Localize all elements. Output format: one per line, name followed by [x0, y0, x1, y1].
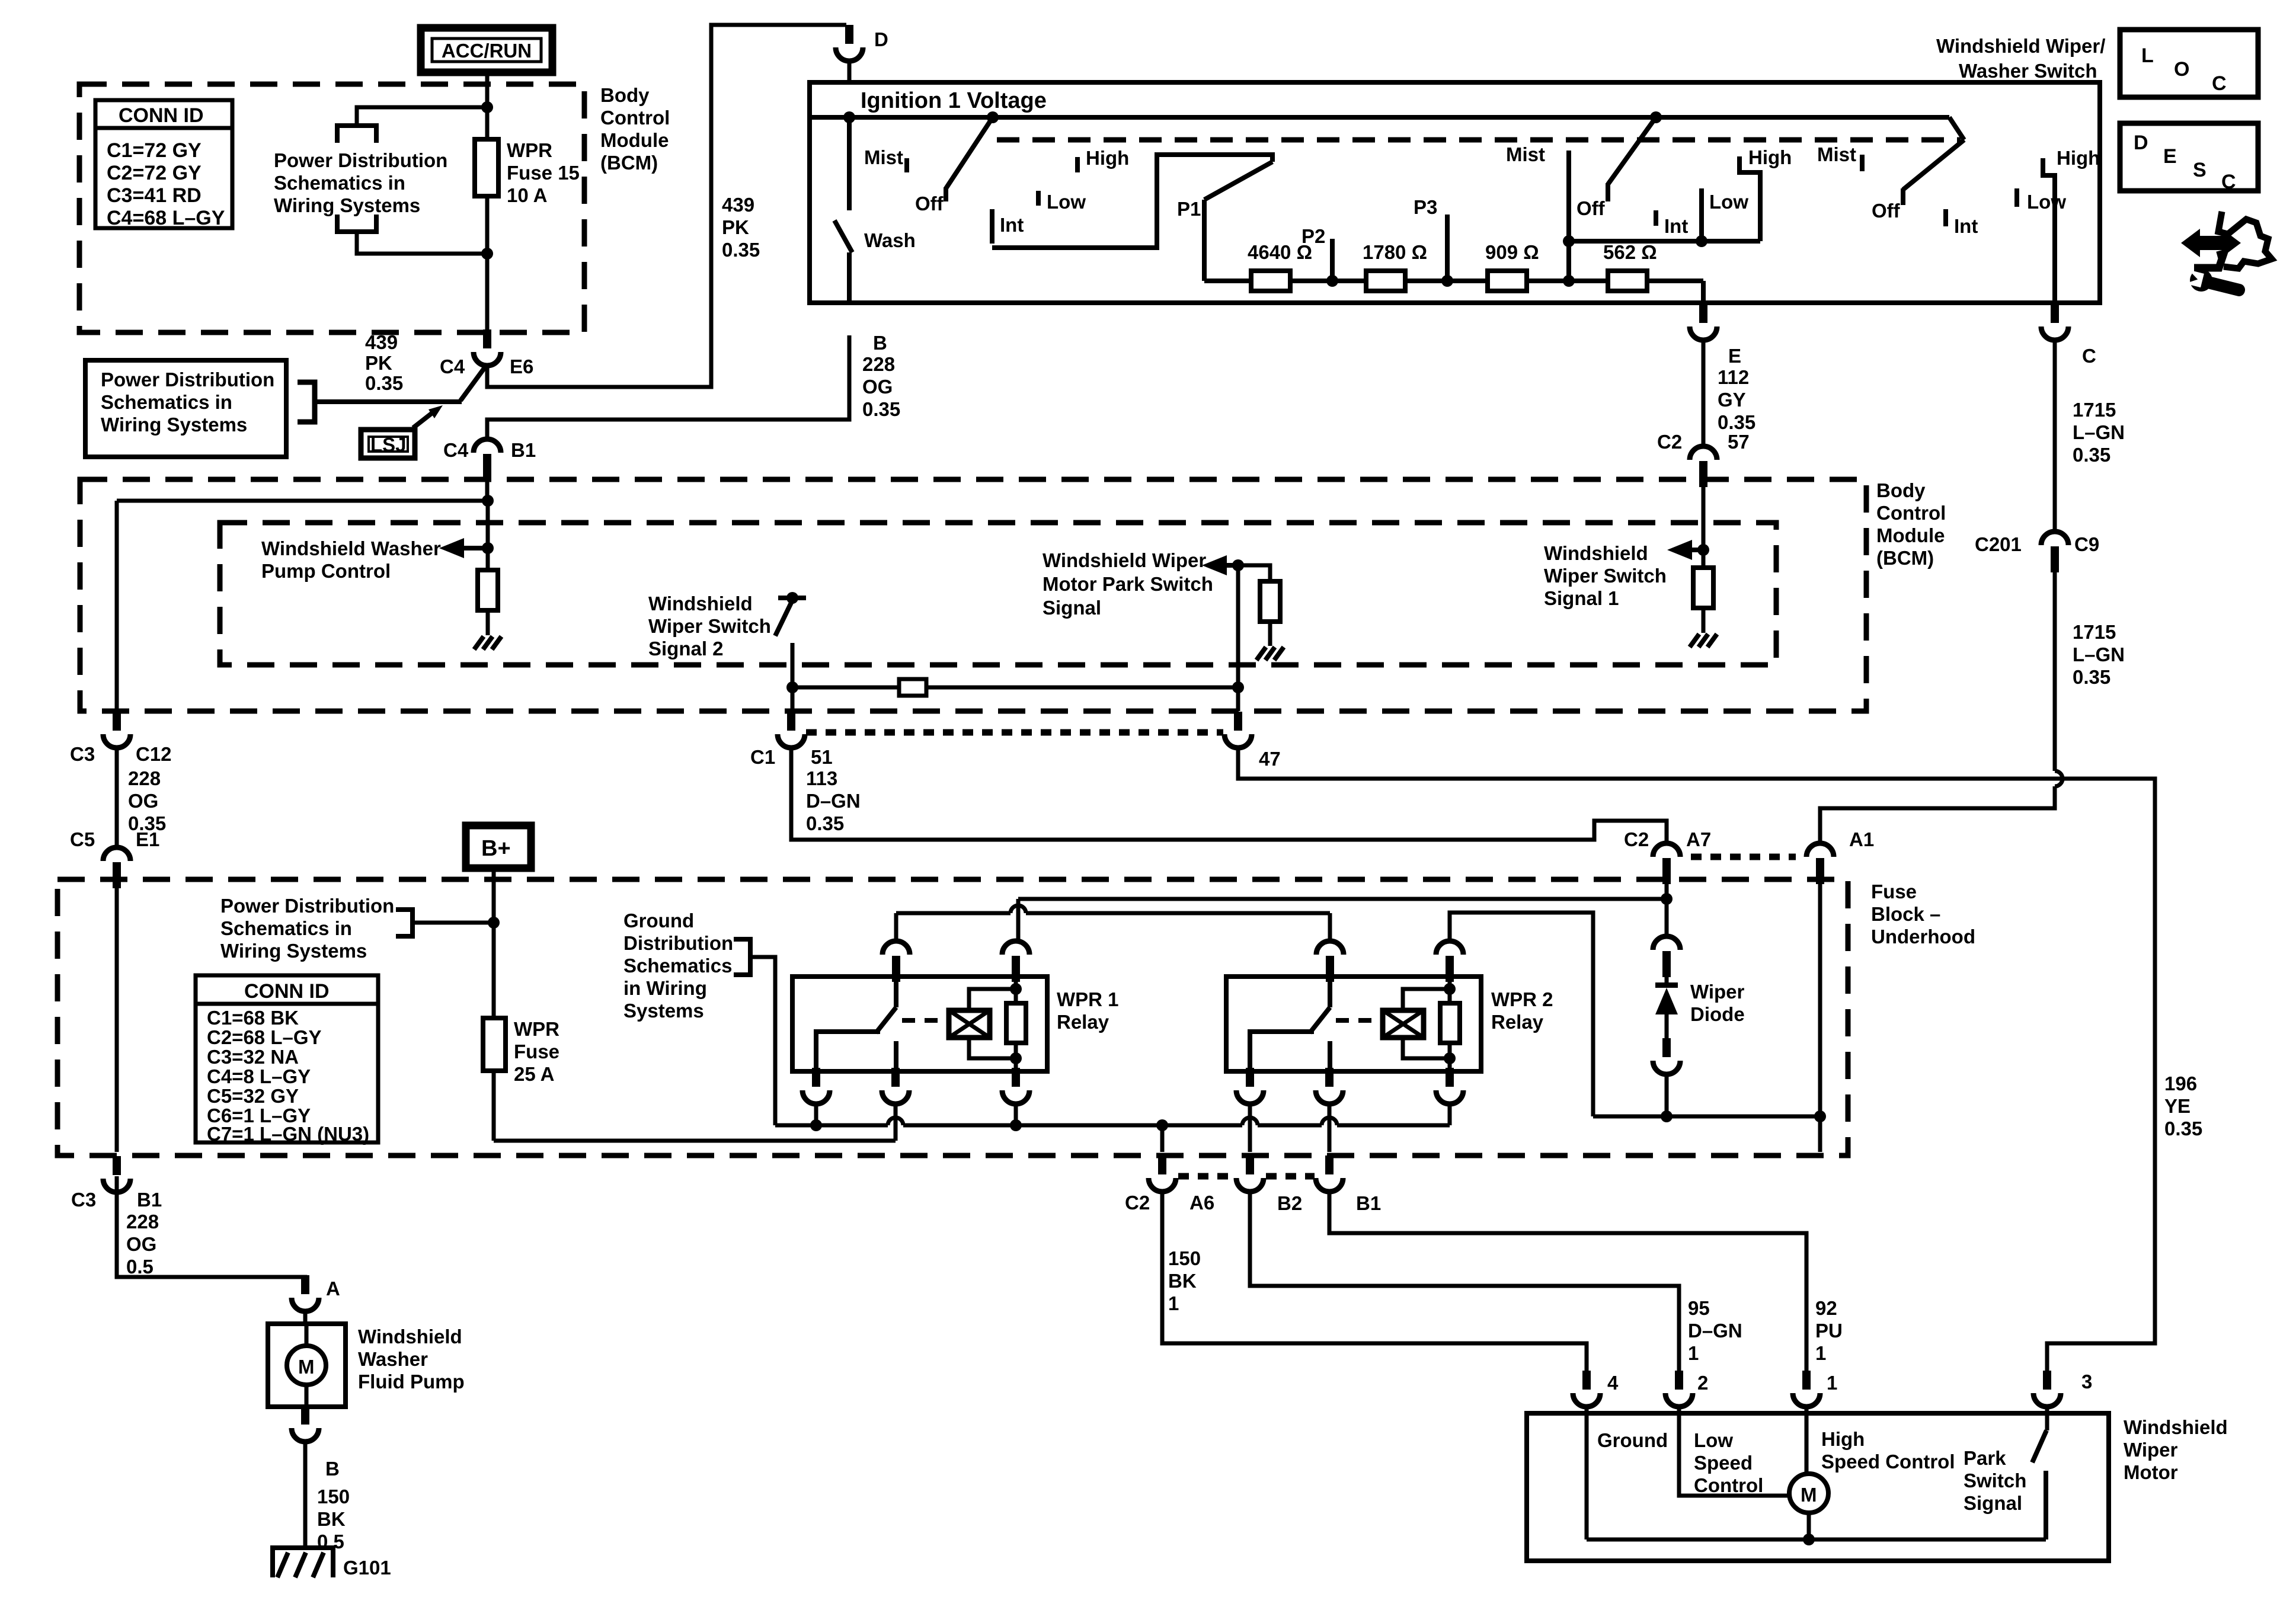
svg-text:C: C — [2221, 171, 2236, 193]
svg-text:1715: 1715 — [2073, 621, 2116, 643]
svg-text:Mist: Mist — [864, 146, 903, 168]
svg-text:C4=68 L–GY: C4=68 L–GY — [107, 207, 225, 229]
svg-text:0.35: 0.35 — [806, 812, 844, 834]
svg-text:Schematics in: Schematics in — [274, 172, 405, 194]
svg-text:Low: Low — [1709, 191, 1748, 213]
svg-text:Distribution: Distribution — [623, 932, 733, 954]
svg-text:Low: Low — [1694, 1429, 1733, 1451]
svg-text:A: A — [326, 1278, 340, 1299]
svg-text:A6: A6 — [1189, 1192, 1214, 1214]
svg-text:1: 1 — [1168, 1292, 1179, 1314]
svg-text:Fuse 15: Fuse 15 — [507, 162, 580, 184]
svg-text:Schematics: Schematics — [623, 955, 732, 977]
svg-text:C1=68 BK: C1=68 BK — [207, 1007, 299, 1029]
svg-text:228: 228 — [862, 353, 895, 375]
svg-text:B: B — [873, 332, 887, 354]
svg-text:Wiper Switch: Wiper Switch — [1544, 565, 1667, 587]
svg-text:WPR 1: WPR 1 — [1057, 988, 1119, 1010]
svg-text:Off: Off — [1872, 200, 1901, 222]
svg-text:47: 47 — [1259, 748, 1281, 770]
svg-text:51: 51 — [811, 746, 833, 768]
svg-text:0.35: 0.35 — [2164, 1118, 2202, 1140]
svg-text:PU: PU — [1815, 1320, 1843, 1342]
svg-text:439: 439 — [722, 194, 754, 216]
svg-text:BK: BK — [317, 1508, 346, 1530]
svg-text:GY: GY — [1718, 389, 1746, 411]
svg-text:in Wiring: in Wiring — [623, 977, 707, 999]
svg-text:Windshield Wiper: Windshield Wiper — [1043, 549, 1206, 571]
svg-text:P1: P1 — [1177, 198, 1201, 220]
svg-text:C: C — [2212, 72, 2227, 95]
svg-text:D–GN: D–GN — [806, 790, 861, 812]
svg-text:1715: 1715 — [2073, 399, 2116, 421]
svg-text:ACC/RUN: ACC/RUN — [442, 40, 532, 62]
svg-text:Signal 2: Signal 2 — [648, 638, 724, 660]
svg-text:Body: Body — [1876, 479, 1926, 501]
svg-text:Motor: Motor — [2124, 1461, 2178, 1483]
svg-text:0.35: 0.35 — [722, 239, 760, 261]
svg-text:Underhood: Underhood — [1871, 926, 1975, 948]
svg-text:95: 95 — [1688, 1297, 1710, 1319]
svg-text:B: B — [325, 1458, 340, 1480]
svg-text:Off: Off — [915, 193, 944, 215]
svg-text:C9: C9 — [2074, 533, 2099, 555]
svg-text:E: E — [2163, 145, 2177, 168]
svg-text:Relay: Relay — [1491, 1011, 1544, 1033]
svg-text:Low: Low — [2027, 191, 2066, 213]
svg-text:Wiper: Wiper — [2124, 1439, 2178, 1461]
svg-text:Control: Control — [1876, 502, 1946, 524]
svg-text:Windshield: Windshield — [358, 1326, 462, 1347]
svg-text:Body: Body — [600, 84, 650, 106]
svg-text:Pump Control: Pump Control — [261, 560, 391, 582]
svg-text:Windshield: Windshield — [648, 593, 753, 614]
svg-text:OG: OG — [862, 376, 893, 398]
svg-text:228: 228 — [126, 1211, 159, 1233]
svg-text:C12: C12 — [136, 743, 172, 765]
svg-text:0.35: 0.35 — [2073, 444, 2110, 466]
svg-text:L: L — [2141, 44, 2154, 67]
svg-text:Signal: Signal — [1043, 597, 1101, 619]
svg-text:Wiper Switch: Wiper Switch — [648, 615, 771, 637]
svg-text:1780 Ω: 1780 Ω — [1363, 241, 1427, 263]
svg-text:Int: Int — [1954, 215, 1978, 237]
svg-text:Ignition 1 Voltage: Ignition 1 Voltage — [861, 88, 1047, 113]
svg-text:C3: C3 — [70, 743, 95, 765]
svg-text:B1: B1 — [1356, 1192, 1381, 1214]
svg-text:Wiper: Wiper — [1690, 981, 1745, 1003]
svg-text:(BCM): (BCM) — [600, 152, 658, 174]
svg-text:Module: Module — [1876, 524, 1945, 546]
svg-text:909 Ω: 909 Ω — [1485, 241, 1539, 263]
svg-text:0.35: 0.35 — [862, 398, 900, 420]
svg-text:Washer Switch: Washer Switch — [1959, 60, 2097, 82]
svg-text:CONN ID: CONN ID — [244, 980, 330, 1003]
svg-text:113: 113 — [806, 767, 837, 789]
svg-text:C201: C201 — [1975, 533, 2022, 555]
svg-text:(BCM): (BCM) — [1876, 547, 1934, 569]
svg-text:2: 2 — [1697, 1372, 1708, 1394]
svg-text:Fuse: Fuse — [1871, 881, 1917, 902]
svg-text:Signal: Signal — [1964, 1492, 2022, 1514]
svg-text:P2: P2 — [1302, 225, 1325, 247]
svg-text:C2=68 L–GY: C2=68 L–GY — [207, 1026, 322, 1048]
svg-text:O: O — [2174, 58, 2189, 81]
svg-text:Block –: Block – — [1871, 903, 1940, 925]
svg-text:C1=72 GY: C1=72 GY — [107, 139, 202, 162]
svg-text:4: 4 — [1607, 1372, 1619, 1394]
svg-text:LSJ: LSJ — [370, 434, 407, 456]
svg-text:Int: Int — [1000, 214, 1024, 236]
svg-text:C3=41 RD: C3=41 RD — [107, 184, 202, 207]
svg-text:C: C — [2082, 345, 2096, 367]
svg-text:E: E — [1728, 345, 1741, 367]
svg-text:Power Distribution: Power Distribution — [220, 895, 394, 917]
svg-text:Power Distribution: Power Distribution — [101, 369, 274, 391]
svg-text:10 A: 10 A — [507, 184, 547, 206]
svg-text:C3: C3 — [71, 1189, 96, 1211]
svg-text:439: 439 — [365, 331, 398, 353]
svg-text:E1: E1 — [136, 828, 159, 850]
svg-text:Systems: Systems — [623, 1000, 704, 1022]
svg-text:Windshield: Windshield — [2124, 1416, 2228, 1438]
svg-text:Off: Off — [1576, 197, 1606, 219]
svg-text:Module: Module — [600, 129, 669, 151]
svg-text:196: 196 — [2164, 1073, 2197, 1094]
svg-text:0.35: 0.35 — [2073, 666, 2110, 688]
svg-text:Low: Low — [1047, 191, 1086, 213]
svg-text:Windshield Wiper/: Windshield Wiper/ — [1936, 35, 2105, 57]
svg-text:A1: A1 — [1849, 828, 1874, 850]
svg-text:P3: P3 — [1414, 196, 1437, 218]
svg-text:WPR 2: WPR 2 — [1491, 988, 1553, 1010]
svg-text:Control: Control — [600, 107, 670, 129]
svg-text:D–GN: D–GN — [1688, 1320, 1742, 1342]
svg-text:S: S — [2193, 159, 2207, 181]
svg-text:Schematics in: Schematics in — [220, 917, 352, 939]
svg-text:Mist: Mist — [1506, 143, 1545, 165]
svg-text:High: High — [1821, 1428, 1865, 1450]
svg-text:C5: C5 — [70, 828, 95, 850]
svg-text:Speed: Speed — [1694, 1452, 1753, 1474]
svg-text:Switch: Switch — [1964, 1470, 2026, 1491]
svg-text:Power Distribution: Power Distribution — [274, 149, 447, 171]
svg-text:Mist: Mist — [1817, 143, 1856, 165]
svg-text:C5=32 GY: C5=32 GY — [207, 1085, 299, 1107]
svg-text:112: 112 — [1718, 366, 1749, 388]
svg-text:M: M — [1801, 1484, 1817, 1506]
svg-text:1: 1 — [1688, 1342, 1699, 1364]
svg-text:L–GN: L–GN — [2073, 421, 2125, 443]
svg-text:228: 228 — [128, 767, 161, 789]
svg-text:A7: A7 — [1686, 828, 1711, 850]
svg-text:OG: OG — [128, 790, 158, 812]
svg-text:150: 150 — [317, 1486, 350, 1507]
svg-text:Wiring Systems: Wiring Systems — [101, 414, 247, 436]
svg-text:C3=32 NA: C3=32 NA — [207, 1046, 299, 1068]
svg-text:B1: B1 — [511, 439, 536, 461]
svg-text:PK: PK — [722, 216, 749, 238]
svg-text:D: D — [2134, 132, 2148, 154]
svg-text:1: 1 — [1815, 1342, 1826, 1364]
svg-text:Wiring Systems: Wiring Systems — [220, 940, 367, 962]
svg-text:C2: C2 — [1657, 431, 1682, 453]
svg-text:Wash: Wash — [864, 229, 916, 251]
svg-text:B2: B2 — [1277, 1192, 1302, 1214]
svg-text:C1: C1 — [750, 746, 775, 768]
svg-text:1: 1 — [1827, 1372, 1837, 1394]
svg-text:Wiring Systems: Wiring Systems — [274, 194, 420, 216]
svg-text:Int: Int — [1664, 215, 1688, 237]
svg-text:OG: OG — [126, 1233, 156, 1255]
svg-text:Speed Control: Speed Control — [1821, 1451, 1955, 1473]
svg-text:Diode: Diode — [1690, 1003, 1745, 1025]
svg-text:562 Ω: 562 Ω — [1603, 241, 1657, 263]
svg-text:Relay: Relay — [1057, 1011, 1109, 1033]
svg-text:57: 57 — [1728, 431, 1750, 453]
svg-text:YE: YE — [2164, 1095, 2191, 1117]
svg-text:C4=8 L–GY: C4=8 L–GY — [207, 1065, 311, 1087]
svg-text:C2=72 GY: C2=72 GY — [107, 162, 202, 184]
svg-text:B+: B+ — [481, 836, 511, 861]
svg-text:Windshield: Windshield — [1544, 542, 1648, 564]
svg-text:3: 3 — [2081, 1371, 2092, 1393]
svg-text:Washer: Washer — [358, 1348, 428, 1370]
svg-text:Schematics in: Schematics in — [101, 391, 232, 413]
svg-text:WPR: WPR — [514, 1018, 559, 1040]
svg-text:C2: C2 — [1624, 828, 1649, 850]
svg-text:0.35: 0.35 — [1718, 411, 1755, 433]
svg-text:BK: BK — [1168, 1270, 1197, 1292]
svg-text:0.35: 0.35 — [365, 372, 403, 394]
svg-text:PK: PK — [365, 352, 392, 374]
svg-text:Ground: Ground — [1597, 1429, 1668, 1451]
svg-text:High: High — [1086, 147, 1129, 169]
svg-text:Ground: Ground — [623, 910, 694, 932]
svg-text:G101: G101 — [343, 1557, 391, 1579]
svg-text:Signal 1: Signal 1 — [1544, 587, 1619, 609]
svg-text:25 A: 25 A — [514, 1063, 554, 1085]
svg-text:D: D — [874, 28, 888, 50]
svg-text:E6: E6 — [510, 356, 533, 377]
svg-text:M: M — [298, 1356, 315, 1378]
svg-text:High: High — [2057, 147, 2100, 169]
svg-text:C4: C4 — [443, 439, 469, 461]
svg-text:High: High — [1748, 146, 1792, 168]
svg-text:0.5: 0.5 — [126, 1256, 154, 1278]
svg-text:WPR: WPR — [507, 139, 552, 161]
svg-text:L–GN: L–GN — [2073, 644, 2125, 665]
svg-text:Park: Park — [1964, 1447, 2006, 1469]
svg-text:Fuse: Fuse — [514, 1041, 559, 1062]
svg-text:Fluid Pump: Fluid Pump — [358, 1371, 465, 1393]
svg-text:C2: C2 — [1125, 1192, 1150, 1214]
svg-text:Control: Control — [1694, 1474, 1763, 1496]
svg-text:Motor Park Switch: Motor Park Switch — [1043, 573, 1213, 595]
svg-text:C7=1 L–GN (NU3): C7=1 L–GN (NU3) — [207, 1123, 369, 1145]
svg-text:B1: B1 — [137, 1189, 162, 1211]
svg-text:CONN ID: CONN ID — [119, 104, 204, 127]
svg-text:C4: C4 — [440, 356, 465, 377]
svg-text:Windshield Washer: Windshield Washer — [261, 537, 441, 559]
svg-text:150: 150 — [1168, 1247, 1201, 1269]
svg-text:92: 92 — [1815, 1297, 1837, 1319]
